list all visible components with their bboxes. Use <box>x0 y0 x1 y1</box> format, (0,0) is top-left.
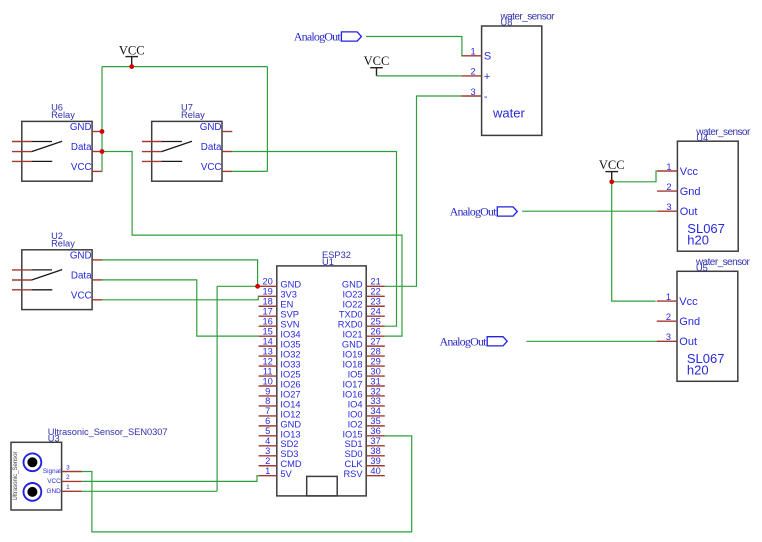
svg-text:38: 38 <box>370 446 380 456</box>
svg-text:16: 16 <box>263 316 273 326</box>
svg-text:8: 8 <box>265 396 270 406</box>
junction at VCC symbol <box>129 64 134 69</box>
svg-text:11: 11 <box>263 366 273 376</box>
svg-text:Data: Data <box>71 271 92 282</box>
svg-text:1: 1 <box>666 292 671 302</box>
svg-text:VCC: VCC <box>599 158 625 172</box>
svg-text:18: 18 <box>263 297 273 307</box>
svg-text:U8: U8 <box>501 18 513 28</box>
svg-text:1: 1 <box>265 466 270 476</box>
svg-text:6: 6 <box>265 416 270 426</box>
svg-text:19: 19 <box>263 287 273 297</box>
svg-text:VCC: VCC <box>47 478 61 485</box>
svg-text:22: 22 <box>370 287 380 297</box>
svg-text:2: 2 <box>666 312 671 322</box>
wire VCC to U8 pin2 + <box>377 75 462 77</box>
relay U2 <box>12 231 102 310</box>
svg-text:GND: GND <box>70 122 92 133</box>
water_sensor U4 <box>657 127 751 251</box>
U3 transducer top <box>24 453 42 471</box>
svg-text:SD3: SD3 <box>280 449 298 459</box>
wire U3 GND to pin20 net <box>82 490 217 492</box>
svg-text:SVP: SVP <box>280 310 299 320</box>
svg-text:24: 24 <box>370 307 380 317</box>
svg-text:IO15: IO15 <box>342 429 362 439</box>
junction U6 Data <box>100 149 105 154</box>
wire VCC to U4 pin1 Vcc <box>612 171 657 182</box>
svg-text:17: 17 <box>263 307 273 317</box>
svg-text:3V3: 3V3 <box>280 290 297 300</box>
svg-text:2: 2 <box>66 474 70 481</box>
svg-text:3: 3 <box>666 332 671 342</box>
svg-text:S: S <box>484 51 491 63</box>
svg-text:IO2: IO2 <box>348 419 363 429</box>
svg-text:23: 23 <box>370 297 380 307</box>
svg-text:34: 34 <box>370 406 380 416</box>
svg-text:IO33: IO33 <box>280 359 300 369</box>
wire AnalogOut to U8 pin1 S <box>366 37 462 56</box>
wire U2 VCC to 3V3 pin19 <box>102 296 259 300</box>
wire VCC down to U7 VCC <box>266 67 268 172</box>
svg-text:13: 13 <box>263 346 273 356</box>
U1 left pins 20..1 <box>259 277 302 480</box>
svg-text:14: 14 <box>263 336 273 346</box>
svg-text:37: 37 <box>370 436 380 446</box>
svg-text:CLK: CLK <box>345 459 364 469</box>
svg-text:GND: GND <box>280 280 301 290</box>
svg-text:Vcc: Vcc <box>679 296 698 308</box>
svg-text:36: 36 <box>370 426 380 436</box>
junction pin20 <box>255 284 260 289</box>
svg-text:VCC: VCC <box>364 54 390 68</box>
svg-text:VCC: VCC <box>201 162 222 173</box>
relay U7 <box>142 103 232 182</box>
wire VCC down to U5 pin1 Vcc <box>612 182 656 301</box>
wire U8 pin3 - to ESP32 pin21 GND <box>385 96 462 286</box>
svg-text:U4: U4 <box>696 133 708 143</box>
svg-text:IO23: IO23 <box>342 290 362 300</box>
svg-text:3: 3 <box>471 87 476 97</box>
svg-text:U3: U3 <box>48 434 60 444</box>
svg-text:IO19: IO19 <box>342 349 362 359</box>
svg-text:EN: EN <box>280 300 293 310</box>
svg-text:GND: GND <box>46 488 61 495</box>
power VCC symbol (U4) <box>599 158 625 182</box>
module U1 ESP32 <box>277 250 366 496</box>
svg-text:SVN: SVN <box>280 320 299 330</box>
svg-text:35: 35 <box>370 416 380 426</box>
svg-text:IO25: IO25 <box>280 369 300 379</box>
wire pin20 to U3 GND vertical <box>217 285 258 287</box>
svg-text:IO34: IO34 <box>280 330 300 340</box>
svg-text:12: 12 <box>263 356 273 366</box>
svg-text:VCC: VCC <box>119 44 145 58</box>
wire VCC down to U6 pins <box>101 67 103 172</box>
svg-text:10: 10 <box>263 376 273 386</box>
svg-text:3: 3 <box>265 446 270 456</box>
relay U6 <box>12 103 102 182</box>
svg-text:water: water <box>492 106 525 121</box>
svg-text:IO5: IO5 <box>348 369 363 379</box>
wire AnalogOut to U5 pin3 Out <box>526 340 656 342</box>
svg-text:28: 28 <box>370 346 380 356</box>
svg-text:1: 1 <box>66 484 70 491</box>
svg-text:30: 30 <box>370 366 380 376</box>
svg-text:Out: Out <box>680 206 698 218</box>
svg-text:RSV: RSV <box>343 469 363 479</box>
svg-text:Relay: Relay <box>181 110 205 120</box>
svg-text:IO0: IO0 <box>348 409 363 419</box>
wire AnalogOut to U4 pin3 Out <box>522 210 657 212</box>
svg-text:AnalogOut: AnalogOut <box>294 30 342 44</box>
svg-text:Ultrasonic_Sensor: Ultrasonic_Sensor <box>13 451 19 500</box>
svg-text:Data: Data <box>201 142 222 153</box>
svg-text:IO13: IO13 <box>280 429 300 439</box>
svg-text:IO16: IO16 <box>342 389 362 399</box>
junction U4 VCC net <box>609 179 614 184</box>
svg-text:2: 2 <box>666 182 671 192</box>
svg-text:IO18: IO18 <box>342 359 362 369</box>
svg-text:2: 2 <box>471 67 476 77</box>
water_sensor U8 <box>461 12 555 136</box>
wire U7 VCC to vertical <box>232 170 267 172</box>
U1 right pins 21..40 <box>338 277 385 480</box>
svg-text:3: 3 <box>666 202 671 212</box>
svg-text:GND: GND <box>342 340 363 350</box>
svg-text:Signal: Signal <box>43 468 61 475</box>
svg-text:7: 7 <box>265 406 270 416</box>
svg-text:4: 4 <box>265 436 270 446</box>
svg-text:h20: h20 <box>687 232 709 247</box>
svg-text:IO27: IO27 <box>280 389 300 399</box>
junction U6 GND <box>100 129 105 134</box>
svg-text:RXD0: RXD0 <box>338 320 363 330</box>
svg-text:IO12: IO12 <box>280 409 300 419</box>
wire U7 Data to RXD0 pin25 <box>232 152 397 327</box>
power VCC symbol (top) <box>119 44 145 67</box>
svg-text:AnalogOut: AnalogOut <box>450 205 498 219</box>
hier label AnalogOut (mid) <box>450 205 518 219</box>
svg-text:21: 21 <box>370 277 380 287</box>
wire VCC horizontal bus <box>102 66 267 68</box>
svg-text:U1: U1 <box>322 257 334 267</box>
svg-text:26: 26 <box>370 326 380 336</box>
svg-text:IO32: IO32 <box>280 349 300 359</box>
svg-text:27: 27 <box>370 336 380 346</box>
svg-text:VCC: VCC <box>71 291 92 302</box>
power VCC symbol (U8) <box>364 54 390 76</box>
svg-text:40: 40 <box>370 466 380 476</box>
svg-text:SD1: SD1 <box>345 439 363 449</box>
svg-text:CMD: CMD <box>280 459 301 469</box>
svg-text:Relay: Relay <box>51 239 75 249</box>
svg-text:Vcc: Vcc <box>680 166 699 178</box>
svg-text:29: 29 <box>370 356 380 366</box>
U3 transducer bottom <box>24 483 42 501</box>
wire U6 Data to IO21 pin26 <box>102 152 402 337</box>
svg-text:33: 33 <box>370 396 380 406</box>
svg-text:Ultrasonic_Sensor_SEN0307: Ultrasonic_Sensor_SEN0307 <box>48 427 168 437</box>
svg-text:Gnd: Gnd <box>679 316 700 328</box>
svg-text:5V: 5V <box>280 469 292 479</box>
svg-text:IO17: IO17 <box>342 379 362 389</box>
hier label AnalogOut (bottom) <box>440 334 508 348</box>
svg-text:SD2: SD2 <box>280 439 298 449</box>
svg-text:39: 39 <box>370 456 380 466</box>
svg-text:+: + <box>484 71 490 83</box>
svg-text:IO35: IO35 <box>280 340 300 350</box>
wire U3 VCC to 5V pin1 <box>82 476 259 482</box>
svg-text:IO4: IO4 <box>348 399 363 409</box>
svg-text:25: 25 <box>370 316 380 326</box>
U1 bottom notch <box>307 476 338 496</box>
svg-text:1: 1 <box>471 47 476 57</box>
svg-text:Data: Data <box>71 142 92 153</box>
svg-text:GND: GND <box>280 419 301 429</box>
water_sensor U5 <box>657 257 751 381</box>
svg-text:31: 31 <box>370 376 380 386</box>
svg-text:IO21: IO21 <box>342 330 362 340</box>
svg-text:IO14: IO14 <box>280 399 300 409</box>
svg-text:Relay: Relay <box>51 110 75 120</box>
svg-text:IO22: IO22 <box>342 300 362 310</box>
svg-text:IO26: IO26 <box>280 379 300 389</box>
svg-text:5: 5 <box>265 426 270 436</box>
hier label AnalogOut (top) <box>294 30 362 44</box>
svg-text:Out: Out <box>679 336 697 348</box>
wire U2 Data to IO34 pin15 <box>102 280 259 336</box>
svg-text:GND: GND <box>200 122 222 133</box>
svg-text:2: 2 <box>265 456 270 466</box>
svg-text:h20: h20 <box>687 363 709 378</box>
svg-text:32: 32 <box>370 386 380 396</box>
svg-text:3: 3 <box>66 464 70 471</box>
svg-text:SD0: SD0 <box>345 449 363 459</box>
svg-text:U5: U5 <box>696 263 708 273</box>
svg-text:1: 1 <box>666 162 671 172</box>
svg-text:20: 20 <box>263 277 273 287</box>
wire U3 Signal to IO15 pin36 <box>82 436 412 532</box>
svg-text:GND: GND <box>342 280 363 290</box>
ultrasonic sensor U3 <box>11 427 167 510</box>
svg-text:Gnd: Gnd <box>680 186 701 198</box>
svg-text:AnalogOut: AnalogOut <box>440 334 488 348</box>
wire U2 GND to pin20 <box>102 260 258 286</box>
svg-text:GND: GND <box>70 251 92 262</box>
svg-text:VCC: VCC <box>71 162 92 173</box>
svg-text:9: 9 <box>265 386 270 396</box>
svg-text:-: - <box>484 91 488 103</box>
svg-text:15: 15 <box>263 326 273 336</box>
svg-text:TXD0: TXD0 <box>339 310 363 320</box>
